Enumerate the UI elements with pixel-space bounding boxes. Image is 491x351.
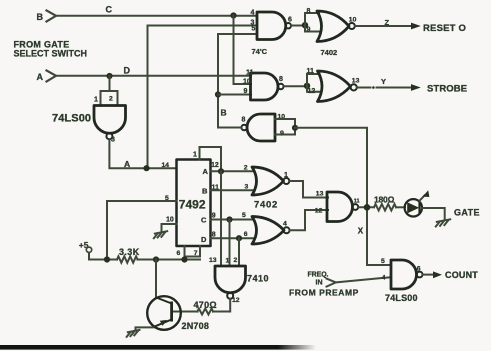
svg-text:470Ω: 470Ω (194, 300, 217, 310)
nor U2c pins 2,3 (252, 167, 284, 195)
wire 7410 output down to resistor (213, 299, 230, 312)
svg-text:1: 1 (193, 152, 197, 159)
svg-text:7410: 7410 (247, 273, 269, 283)
svg-text:6: 6 (288, 17, 292, 24)
wire vertical to 7410 pin13 (220, 171, 222, 266)
bubble nor U2b (351, 84, 357, 90)
transistor Q1 2N708 circle (147, 296, 181, 330)
wire LED to ground (422, 208, 445, 220)
input connector A (47, 71, 57, 82)
svg-text:12: 12 (211, 162, 219, 169)
wire NOR2 tied inputs (307, 74, 320, 92)
svg-text:C: C (201, 216, 207, 225)
wire node X from inverter (295, 128, 390, 265)
junction node A (143, 165, 149, 171)
wire vertical to 7410 pin2 (238, 238, 240, 266)
wire C junction down to NAND2 pin10 (234, 16, 252, 85)
nor U2d pins 5,6 (252, 217, 284, 245)
svg-text:IN: IN (316, 280, 323, 287)
svg-text:4: 4 (382, 274, 386, 281)
wire NAND2 pin9 (218, 94, 251, 96)
bubble nand U3c (241, 125, 247, 131)
wire output D row (211, 237, 254, 239)
wire pin5 to +5 rail (107, 201, 177, 260)
svg-text:11: 11 (354, 198, 360, 204)
input connector FREQ (327, 279, 336, 287)
junction D row (236, 235, 242, 241)
svg-text:7: 7 (194, 250, 198, 257)
nand U5 pins 12,13 (327, 192, 353, 222)
transistor emitter arrow (160, 320, 167, 326)
wire NAND1 pin3 from node A vertical (148, 26, 258, 170)
svg-text:1: 1 (284, 172, 288, 179)
input connector B (47, 11, 57, 22)
wire U3a output to node A (109, 140, 176, 169)
wire net C (56, 15, 257, 17)
wire output C row (211, 219, 254, 221)
svg-text:5: 5 (381, 258, 385, 265)
wire resistor to base (172, 311, 198, 313)
wire nand U1a output (291, 25, 305, 27)
scan edge band bottom (0, 345, 316, 350)
bubble nand U1b (278, 84, 283, 89)
svg-text:12: 12 (232, 297, 240, 304)
nand U6 7410 pins 13,1,2 pointing down (215, 266, 246, 293)
bubble nand U3a (106, 133, 112, 139)
svg-text:X: X (358, 226, 364, 235)
wire freq to nand pin4 (336, 277, 390, 282)
svg-text:B: B (202, 186, 208, 195)
junction B vertical pin9 (215, 91, 221, 97)
svg-text:3: 3 (111, 137, 115, 144)
junction pin1 tie (218, 168, 224, 174)
svg-text:SELECT SWITCH: SELECT SWITCH (14, 48, 88, 58)
wire nand U1b output (284, 85, 308, 87)
wire pin1 loop (200, 147, 222, 171)
svg-text:C: C (106, 4, 113, 14)
resistor 470 ohm (198, 309, 214, 315)
svg-text:STROBE: STROBE (427, 84, 467, 95)
svg-text:6: 6 (417, 266, 421, 273)
wire +5 rail (89, 253, 117, 260)
wire net D (56, 75, 251, 77)
wire NOR1 tied inputs (305, 13, 319, 32)
LED light arrowhead (423, 190, 430, 197)
wire pin10 to ground (162, 224, 177, 232)
svg-text:1: 1 (226, 258, 230, 265)
nand U1a 74'C pins 3,4,5 (257, 12, 286, 40)
svg-text:FREQ.: FREQ. (308, 271, 329, 278)
transistor emitter diagonal (153, 320, 172, 328)
node junction on C wire (230, 12, 236, 18)
LED D1 circle (405, 199, 422, 216)
wire pins 6,7 to rail (185, 246, 201, 260)
wire 74LS00 inverter input feed (101, 76, 118, 105)
svg-text:A: A (37, 72, 44, 82)
bubble nand U5 (352, 204, 358, 210)
arrowhead count (433, 271, 442, 278)
bubble nor U2a (349, 23, 355, 29)
svg-text:74'C: 74'C (252, 47, 268, 56)
transistor base bar (170, 302, 173, 322)
connector +5 (86, 247, 91, 252)
arrowhead strobe (411, 84, 421, 91)
resistor 180 ohm (374, 204, 396, 210)
svg-text:3.3K: 3.3K (119, 247, 140, 257)
wire U2d output to nand 12 (290, 210, 329, 230)
svg-text:Y: Y (381, 77, 386, 86)
svg-text:B: B (37, 12, 44, 22)
svg-text:RESET O: RESET O (423, 23, 466, 34)
LED light arrow (419, 195, 424, 200)
svg-text:9: 9 (212, 212, 216, 219)
wire U2c output to nand 13 (289, 181, 328, 198)
transistor collector diagonal (156, 298, 171, 304)
bubble nor U2d (284, 227, 290, 233)
svg-text:5: 5 (252, 26, 256, 33)
junction 7492 gnd pins (181, 256, 187, 262)
wire resistor to LED (396, 206, 405, 208)
bubble nand U3b (417, 272, 423, 278)
svg-text:13: 13 (352, 77, 360, 84)
svg-text:B: B (221, 107, 227, 117)
svg-text:9: 9 (244, 88, 248, 95)
svg-text:10: 10 (349, 17, 357, 24)
svg-text:5: 5 (242, 212, 246, 219)
nand U3c inverter pins 8,9,10 pointing left (247, 114, 275, 141)
svg-text:8: 8 (242, 116, 246, 123)
wire emitter to ground (136, 327, 154, 330)
svg-text:74LS00: 74LS00 (52, 113, 91, 125)
svg-text:74LS00: 74LS00 (385, 293, 418, 303)
svg-text:GATE: GATE (454, 207, 480, 217)
svg-text:D: D (124, 65, 131, 75)
junction speck on strobe wire (372, 86, 375, 89)
svg-text:8: 8 (279, 76, 283, 83)
svg-text:6: 6 (244, 231, 248, 238)
svg-text:4: 4 (283, 220, 287, 227)
svg-text:FROM PREAMP: FROM PREAMP (289, 288, 359, 298)
wire count output (423, 274, 435, 276)
bubble nor U2c (283, 178, 289, 184)
arrowhead reset (411, 23, 421, 30)
wire Y to strobe (357, 87, 412, 89)
ic U4 7492 box (177, 160, 211, 247)
svg-text:2: 2 (244, 164, 248, 171)
svg-text:10: 10 (166, 216, 174, 223)
wire output A row (211, 170, 254, 172)
junction NOR2 input tie (304, 83, 310, 89)
svg-text:D: D (201, 235, 207, 244)
svg-text:2: 2 (234, 257, 238, 264)
junction +5 pin5 (104, 256, 110, 262)
svg-text:6: 6 (177, 250, 181, 257)
svg-text:7402: 7402 (254, 199, 278, 210)
ground LED (436, 219, 450, 226)
svg-text:7492: 7492 (179, 198, 206, 212)
svg-text:COUNT: COUNT (445, 270, 478, 280)
svg-text:A: A (203, 167, 209, 176)
junction collector (153, 256, 159, 262)
nor U2a 7402 pins 8,9 (317, 11, 349, 42)
wire rail to 7492 pins 6,7 (138, 259, 201, 261)
svg-text:13: 13 (316, 190, 324, 197)
svg-text:12: 12 (315, 208, 323, 215)
wire Z to reset (355, 25, 412, 27)
wire collector (155, 260, 157, 299)
junction C row (226, 216, 232, 222)
svg-text:11: 11 (307, 68, 315, 75)
svg-text:8: 8 (307, 8, 311, 15)
LED D1 cathode bar (418, 202, 420, 214)
resistor 3.3K (117, 256, 137, 262)
wire output B row (211, 189, 254, 191)
svg-text:1: 1 (94, 97, 98, 104)
wire vertical to 7410 pin1 (229, 220, 231, 267)
junction inverter inputs (292, 125, 298, 131)
svg-text:11: 11 (246, 69, 254, 76)
svg-text:Z: Z (385, 18, 390, 27)
wire NAND1 pin5 from B vertical (218, 34, 257, 128)
bubble nand U1a (286, 23, 291, 28)
junction on A wire (106, 73, 112, 79)
svg-text:12: 12 (308, 88, 316, 95)
junction node X (364, 204, 371, 211)
svg-text:9: 9 (307, 27, 311, 34)
svg-text:7402: 7402 (321, 48, 338, 57)
junction NOR1 input tie (302, 22, 308, 28)
svg-text:14: 14 (162, 162, 170, 169)
wire inverter tied inputs (275, 119, 295, 135)
ground 7492 pin10 (154, 231, 167, 238)
svg-text:A: A (124, 159, 130, 169)
nand U3a 74LS00 pins 1,2 pointing down (94, 106, 126, 134)
svg-text:13: 13 (209, 257, 217, 264)
wire inverter output to B vertical (218, 127, 241, 129)
ground emitter (127, 330, 140, 337)
svg-text:10: 10 (243, 79, 251, 86)
bubble nand U6 (227, 293, 233, 299)
nand U3b 74LS00 pins 4,5 (391, 260, 417, 289)
svg-text:3: 3 (245, 184, 249, 191)
LED D1 triangle (407, 202, 419, 213)
nor U2b pins 11,12 (318, 71, 351, 102)
svg-text:4: 4 (251, 10, 255, 17)
svg-text:2: 2 (109, 96, 113, 103)
nand U1b pins 9,10,11 (251, 73, 279, 100)
wire nand U5 output (358, 206, 374, 208)
svg-text:180Ω: 180Ω (374, 194, 395, 204)
svg-text:2N708: 2N708 (182, 321, 210, 331)
